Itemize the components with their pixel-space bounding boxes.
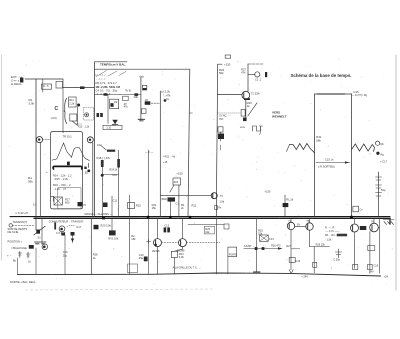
vertical x65 to bus2 <box>64 235 66 275</box>
svg-text:C:1: C:1 <box>176 202 181 206</box>
porte box <box>228 247 237 257</box>
svg-text:Schéma de la base de temps.: Schéma de la base de temps. <box>291 73 352 78</box>
svg-text:C11: C11 <box>113 199 118 203</box>
svg-text:C17: C17 <box>76 225 81 229</box>
svg-text:R22: R22 <box>192 204 197 208</box>
label R28 <box>131 234 136 241</box>
base wire <box>218 94 242 96</box>
box R on x370 <box>368 246 375 251</box>
below bus: transistor T4 stem <box>290 218 292 222</box>
dashed sortie wire <box>13 225 34 227</box>
T2 blob <box>155 244 157 246</box>
svg-text:AJUST. ←: AJUST. ← <box>244 245 256 248</box>
capacitor C1 <box>42 84 52 89</box>
svg-text:H.DECL.: H.DECL. <box>11 82 23 86</box>
below bus left: sortie terminal <box>9 224 12 227</box>
wire below C2 <box>220 132 222 141</box>
component left <box>224 224 229 229</box>
svg-text:R14 · 1,2k · 1,2: R14 · 1,2k · 1,2 <box>53 174 72 178</box>
+150 hook <box>218 63 222 65</box>
svg-text:WEHNELT: WEHNELT <box>272 115 287 119</box>
svg-text:PORTE: PORTE <box>229 254 238 257</box>
inner bracket line <box>58 188 81 209</box>
resistor zigzag R31 <box>290 144 315 153</box>
svg-text:2N398: 2N398 <box>152 250 160 253</box>
resistor box on x129 <box>128 203 135 209</box>
resistor R11 box <box>69 97 77 107</box>
ground pot <box>138 119 145 121</box>
svg-text:-(C6): -(C6) <box>51 116 57 120</box>
switch contact blob <box>36 230 40 234</box>
svg-text:C5: C5 <box>145 98 149 102</box>
junction dot <box>164 99 167 102</box>
resistor R8 box <box>110 99 119 109</box>
diode D3 blob <box>78 202 83 206</box>
big box top edge <box>315 93 352 95</box>
wire down x72.5 <box>72 236 74 243</box>
svg-text:R11: R11 <box>69 98 74 102</box>
svg-text:C3 .1: C3 .1 <box>255 78 262 82</box>
cathode vertical x92.8 <box>92 143 94 217</box>
relay contact dashed box <box>84 107 94 120</box>
svg-text:+ C17: + C17 <box>380 160 388 164</box>
label rows handwriting <box>95 73 107 81</box>
svg-text:C 50µ: C 50µ <box>333 258 340 261</box>
R7 label <box>124 103 129 109</box>
wire to C3 <box>248 73 255 75</box>
svg-text:— 1n(??) t Rg: — 1n(??) t Rg <box>352 94 368 97</box>
wire stub <box>102 174 118 176</box>
big box right : right edge <box>351 94 353 217</box>
svg-text:· 1,5k ·: · 1,5k · <box>325 239 333 242</box>
crossed box C13 <box>260 235 269 241</box>
top hook wire <box>248 63 263 65</box>
svg-text:50µ: 50µ <box>381 188 386 192</box>
dashes <box>69 225 75 227</box>
wire T5 to R29 <box>310 246 315 248</box>
svg-text:R19 1k: R19 1k <box>109 168 118 171</box>
divider vertical x94.4 <box>93 62 95 216</box>
arrowhead down <box>71 239 74 243</box>
resistor zigzag R32 <box>352 144 375 152</box>
waveform sketch diagonal <box>96 71 126 77</box>
svg-text:·2N·: ·2N· <box>296 224 301 227</box>
svg-text:R27: R27 <box>286 245 291 248</box>
wire stub <box>220 145 222 150</box>
svg-text:S1: S1 <box>38 236 42 240</box>
capacitor C8 plates <box>97 113 103 117</box>
R25 box <box>205 226 215 234</box>
emitter vertical <box>245 99 247 118</box>
terminal circles <box>376 141 380 145</box>
horizontal R29 <box>314 246 329 248</box>
svg-text:+Vp: +Vp <box>139 74 144 78</box>
vertical x118.6 <box>118 150 120 217</box>
electrolytic C17 <box>378 172 380 217</box>
svg-text:COMMUTATEUR ·· TRANSIST.: COMMUTATEUR ·· TRANSIST. <box>49 220 84 223</box>
switch arm <box>34 226 45 235</box>
capacitor symbols <box>18 251 30 258</box>
pot labels <box>162 90 172 102</box>
resistor R7 small box <box>123 96 129 100</box>
svg-text:15k: 15k <box>131 237 136 241</box>
svg-text:R20: R20 <box>136 204 141 208</box>
wire vertical x63 <box>62 79 64 133</box>
svg-text:INT.: INT. <box>219 117 224 121</box>
svg-text:C: C <box>55 106 59 112</box>
svg-text:R16 ‥ 600 ‥ 2: R16 ‥ 600 ‥ 2 <box>53 183 71 187</box>
faint fold line <box>25 289 215 290</box>
component box small <box>128 264 138 273</box>
svg-text:Re: Re <box>218 207 222 210</box>
svg-text:+15: +15 <box>163 161 168 164</box>
wire horizontal to pot <box>120 94 141 96</box>
dark bits <box>337 234 347 237</box>
R6 slider blob <box>143 88 147 90</box>
collector vertical x248 <box>247 64 249 91</box>
svg-text:R1,2k: R1,2k <box>286 198 293 202</box>
wire dashes <box>77 123 83 125</box>
arrow wire C15 <box>316 162 350 164</box>
anode supply vertical x217.7 <box>216 64 217 216</box>
cap blob top <box>168 197 176 201</box>
svg-text:T3: T3 <box>220 194 224 198</box>
arrowhead <box>278 247 283 250</box>
junction dot <box>101 174 104 177</box>
svg-text:Rk: Rk <box>381 142 385 146</box>
cap blob left <box>61 233 65 236</box>
wire right of T3 dashed <box>187 242 221 244</box>
vertical x17.5 to lower bus <box>17 258 19 275</box>
divider vertical x108 <box>107 95 109 124</box>
svg-text:SORTIE + BAL. DECL.: SORTIE + BAL. DECL. <box>10 280 37 284</box>
dotted wire sync <box>218 112 240 114</box>
cathode wire under tube 1 <box>39 143 41 217</box>
ground tick <box>254 271 261 273</box>
svg-text:R23: R23 <box>174 181 179 184</box>
dark box component <box>94 225 99 230</box>
svg-text:POSITION ·t·: POSITION ·t· <box>8 240 24 244</box>
squarewave glyph <box>253 126 263 131</box>
T7 bar <box>371 225 373 230</box>
capacitor box on supply line <box>353 206 359 212</box>
pot blob <box>109 230 116 235</box>
wire diagonal to cap <box>101 145 107 150</box>
wire between T4 T5 <box>295 225 306 227</box>
svg-text:25µ: 25µ <box>63 253 68 257</box>
lamp dot <box>43 246 46 249</box>
capacitor C2 box <box>218 127 223 132</box>
svg-text:DE SCIE: DE SCIE <box>8 230 19 234</box>
transistor T1 circle <box>242 91 250 99</box>
svg-text:1k: 1k <box>28 260 31 264</box>
svg-text:3,9k: 3,9k <box>179 255 185 259</box>
junction blobs <box>134 93 138 96</box>
wire top-left input <box>25 78 63 80</box>
resistor R12 box <box>70 114 77 121</box>
terminal bar <box>265 72 267 77</box>
R31 label <box>316 135 322 143</box>
resistor R26 label <box>219 68 225 75</box>
wire T2-T3 dashed <box>162 242 179 244</box>
component on x314 <box>313 262 317 267</box>
box top edge <box>95 68 190 70</box>
transistor T6 circle <box>351 224 359 232</box>
terminal dot <box>376 152 379 155</box>
R25b labels <box>258 229 263 236</box>
svg-text:Rb ·· 2N —: Rb ·· 2N — <box>325 234 338 237</box>
wire vertical x42.8 <box>42 79 44 92</box>
small cap <box>335 249 341 258</box>
vertical x256.7 <box>256 218 258 272</box>
svg-text:1,8k: 1,8k <box>220 201 225 204</box>
svg-text:R29 22k: R29 22k <box>316 244 326 247</box>
wire below R24 <box>173 258 175 275</box>
svg-text:Cs: Cs <box>360 209 364 212</box>
R28a label <box>93 253 98 260</box>
wire left to grid <box>63 87 94 89</box>
cross tick <box>147 239 151 243</box>
svg-text:T1 35A: T1 35A <box>251 92 260 96</box>
svg-text:R20 3,9k: R20 3,9k <box>101 223 112 227</box>
T8 base wire <box>160 194 211 196</box>
components on row <box>255 247 258 250</box>
vertical x36 below <box>35 248 37 275</box>
node anode dot <box>77 104 80 107</box>
heater dot 2 <box>89 139 91 141</box>
svg-text:C 0,5µF: C 0,5µF <box>56 231 66 235</box>
svg-text:2,2k: 2,2k <box>69 102 75 106</box>
R24 label <box>179 252 185 259</box>
component small x72.5 <box>71 232 75 236</box>
svg-text:C1 .5: C1 .5 <box>42 84 49 88</box>
svg-text:+ 24V: + 24V <box>301 275 308 279</box>
transistor T5 stem <box>309 218 311 223</box>
contact circle <box>85 113 89 117</box>
blob between <box>360 226 367 230</box>
resistor R18 bar <box>117 159 120 168</box>
grid wire vertical x160.3 <box>159 91 161 217</box>
capacitor C06 box <box>142 109 147 114</box>
T6 emitter down <box>354 232 356 268</box>
resistor box below T8 <box>215 206 218 210</box>
wire top horizontal small <box>94 61 127 63</box>
diode D2 blob <box>218 134 224 140</box>
svg-text:⎓ 6,3V eff.: ⎓ 6,3V eff. <box>15 211 29 215</box>
box on x354 <box>353 264 358 269</box>
ajust row: wire <box>244 248 281 250</box>
R25 label <box>205 227 210 234</box>
C17 plates <box>376 177 382 196</box>
resistor R33 box <box>241 110 245 117</box>
tube V2 heater circle right <box>87 137 93 143</box>
dark component <box>144 257 148 262</box>
T4 emitter down <box>290 230 292 270</box>
resistor row labels <box>96 81 121 96</box>
vertical x216.4 <box>215 218 217 274</box>
C16a label <box>63 250 68 257</box>
below bus mid: pot with arrow <box>111 218 113 230</box>
svg-text:15k: 15k <box>152 206 157 210</box>
svg-text:⤳ 1k: ⤳ 1k <box>163 97 170 101</box>
junction blob on wire <box>104 93 108 95</box>
wire diagonal cathode <box>72 121 78 125</box>
capacitor C9 plates <box>107 150 115 152</box>
contact bar <box>54 223 56 230</box>
triode V1a envelope brace (left tube) <box>64 98 67 123</box>
+150 right vertical x285 <box>284 195 286 217</box>
label R21 <box>152 203 157 210</box>
svg-text:56k: 56k <box>28 180 33 184</box>
svg-text:C12: C12 <box>165 225 170 228</box>
svg-text:RV1 10k: RV1 10k <box>108 237 119 241</box>
arrowhead <box>345 161 349 163</box>
svg-text:R18 (·) 47k ·: R18 (·) 47k · <box>97 156 112 160</box>
label rows below <box>161 198 185 210</box>
wire x145.5 to lower bus <box>148 218 150 274</box>
scan speckle noise <box>9 59 393 285</box>
transistor T2 stem <box>157 218 159 238</box>
vertical x102.3 <box>101 160 103 217</box>
diode blob <box>103 203 108 208</box>
text rows inside box <box>53 174 72 192</box>
svg-text:TR 10:1: TR 10:1 <box>63 135 73 139</box>
emitter blob <box>244 98 250 100</box>
wire vertical x36 <box>35 79 37 230</box>
T1 internals <box>243 93 245 98</box>
T8 bar <box>212 194 214 198</box>
anode wire vertical <box>77 107 79 125</box>
component blob x31 <box>29 245 34 249</box>
T2 bar <box>155 240 157 245</box>
left labels cluster <box>325 226 340 241</box>
wire x129.4 <box>128 195 130 217</box>
B label blob <box>67 162 70 166</box>
svg-text:56k: 56k <box>219 71 224 75</box>
svg-text:+150: +150 <box>176 171 183 175</box>
box right edge x189.5 <box>188 69 190 216</box>
R8 inner blob <box>110 103 113 107</box>
svg-text:C16: C16 <box>63 250 68 254</box>
T6 bar <box>352 226 354 231</box>
diode D1 <box>80 86 85 89</box>
base wire right <box>188 224 224 226</box>
potentiometer +Vp vertical <box>140 77 142 120</box>
resistor R1 label <box>29 98 35 106</box>
svg-text:25µ: 25µ <box>139 256 144 260</box>
terminal box top <box>225 55 230 58</box>
R17 label <box>65 198 70 205</box>
C10 cross <box>54 197 62 205</box>
coil dot <box>60 228 63 231</box>
svg-text:+ –: + – <box>7 254 12 258</box>
svg-text:R13 · 1,2k: R13 · 1,2k <box>78 125 90 128</box>
page right edge <box>395 55 397 290</box>
svg-text:· 1:10 ·: · 1:10 · <box>105 128 113 130</box>
capacitor C5 blobs <box>145 101 151 105</box>
svg-text:+.: +. <box>46 170 49 174</box>
svg-text:2k: 2k <box>181 207 184 210</box>
ground bus (main) <box>10 216 390 218</box>
tube V1 heater circle left <box>36 137 42 143</box>
top edge dark segment <box>318 93 345 95</box>
ground blob under T1 <box>243 118 247 122</box>
wire x112 <box>111 196 113 217</box>
right transistors: T6 stem <box>354 218 356 224</box>
svg-text:*: * <box>67 226 69 230</box>
wire x170.5 <box>170 198 172 217</box>
T7 stem <box>373 218 375 223</box>
heater dot <box>38 138 40 140</box>
wire below R23 <box>178 185 180 217</box>
svg-text:— tr —: — tr — <box>145 150 154 154</box>
crossed box C10 <box>54 197 62 205</box>
lamp circle <box>42 244 48 250</box>
vertical x379.5 below bus <box>379 218 381 273</box>
transistor T4 circle <box>287 222 294 229</box>
wire dashed to grid <box>151 102 160 104</box>
vertical x129.4 below <box>128 218 130 274</box>
wire x148.5 <box>148 150 150 217</box>
supply bus (lower) <box>18 273 381 276</box>
T3 bar <box>180 240 182 245</box>
ground pair <box>35 242 47 244</box>
svg-text:¹·R21 ·· 4k ·: ¹·R21 ·· 4k · <box>163 156 177 159</box>
svg-text:C15 1n: C15 1n <box>325 157 334 161</box>
svg-text:+24: +24 <box>384 275 389 279</box>
svg-text:10k: 10k <box>133 95 138 99</box>
svg-text:R26 470: R26 470 <box>271 245 281 248</box>
capacitor C9 body <box>101 160 104 167</box>
svg-text:· R15 ·· 2,2k ·: · R15 ·· 2,2k · <box>53 177 70 181</box>
svg-text:C13: C13 <box>269 238 274 241</box>
node EXT input text <box>11 75 23 86</box>
svg-text:7k B: 7k B <box>125 89 131 93</box>
svg-text:600: 600 <box>65 201 70 205</box>
capacitor C3 circle <box>255 72 260 77</box>
svg-text:24V ·: 24V · <box>369 271 375 274</box>
resistor R27 label <box>241 67 247 74</box>
cap blob <box>283 203 289 207</box>
svg-text:Rg: Rg <box>381 153 385 157</box>
T7 emitter down <box>369 232 371 274</box>
tick on x189.5 <box>190 112 193 114</box>
svg-text:C18: C18 <box>374 265 379 268</box>
dark bar electrode <box>53 166 82 169</box>
svg-text:47k: 47k <box>124 106 129 109</box>
resistor R6 box <box>142 85 147 90</box>
arrow ground <box>289 270 293 274</box>
transistor T2 circle <box>154 239 162 247</box>
svg-text:TENSION(?): TENSION(?) <box>13 220 28 224</box>
R31 left tail <box>287 145 290 152</box>
junction dots on bus <box>147 216 150 219</box>
wire vertical x42 <box>41 218 43 242</box>
contact dot <box>86 114 88 116</box>
svg-text:Rp: Rp <box>13 259 17 263</box>
C18 box <box>368 264 373 269</box>
wire tube1 to box <box>43 139 51 141</box>
R23 diagonal tail <box>170 185 174 192</box>
relay coil circle <box>59 226 65 232</box>
transistor T3 circle <box>179 239 187 247</box>
vertical x91.3 below bus <box>90 218 92 274</box>
C16 label <box>139 253 144 260</box>
svg-text:vers: vers <box>240 125 246 129</box>
divider flat box <box>103 125 122 129</box>
D4 bar <box>112 124 118 126</box>
resistor R4 label <box>28 176 33 184</box>
